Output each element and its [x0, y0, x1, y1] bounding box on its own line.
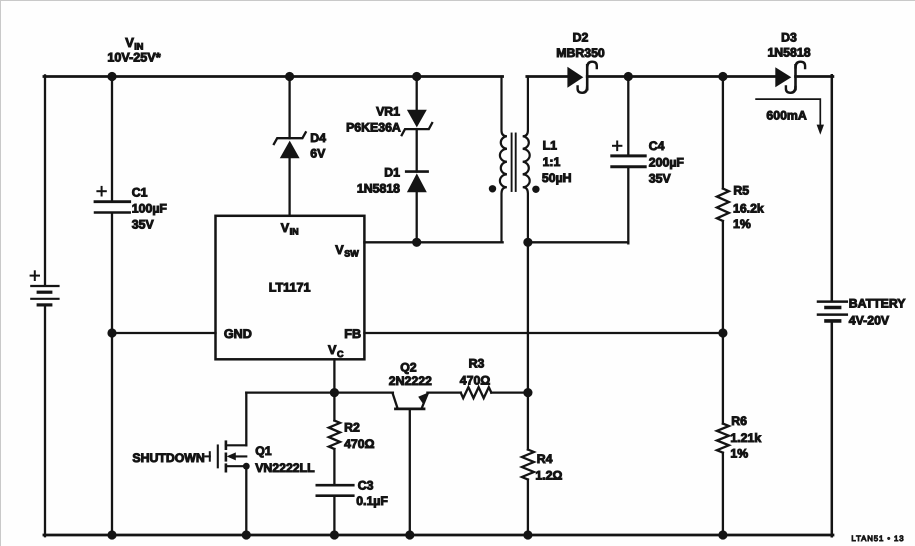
svg-text:16.2k: 16.2k	[733, 201, 764, 215]
svg-text:SW: SW	[344, 248, 359, 258]
svg-text:D4: D4	[310, 130, 326, 144]
label input battery + polarity	[30, 271, 38, 280]
svg-text:2N2222: 2N2222	[388, 374, 431, 388]
svg-text:Q1: Q1	[255, 444, 272, 458]
node C4 top junction dot	[623, 71, 632, 80]
wire GND pin to C1 branch	[112, 331, 216, 333]
svg-text:C3: C3	[357, 478, 373, 492]
svg-text:R2: R2	[344, 420, 360, 434]
wire C4 branch lower	[627, 168, 629, 243]
wire R2 to C3	[333, 449, 335, 484]
wire C3 lower	[333, 496, 335, 534]
node Q2 base ground junction dot	[405, 530, 414, 539]
node C1 ground bus junction dot	[107, 530, 116, 539]
svg-text:L1: L1	[542, 138, 557, 152]
svg-text:LT1171: LT1171	[268, 280, 310, 294]
svg-text:BATTERY: BATTERY	[848, 296, 905, 310]
wire right rail lower (battery - to ground bus)	[830, 322, 833, 536]
diode VR1 transient suppressor P6KE36A	[401, 109, 431, 134]
svg-text:470Ω: 470Ω	[459, 373, 490, 387]
node D4 top junction dot	[285, 71, 294, 80]
wire FB pin to divider junction	[364, 331, 723, 333]
node R3 sense junction dot	[523, 388, 532, 397]
svg-text:50µH: 50µH	[541, 171, 571, 185]
wire VR1 to D1	[415, 129, 417, 172]
svg-text:1%: 1%	[733, 217, 751, 231]
wire D1 to VSW line	[415, 191, 417, 242]
node FB divider junction dot	[718, 328, 727, 337]
resistor R4	[521, 449, 533, 479]
wire secondary return vertical	[526, 242, 528, 392]
svg-text:6V: 6V	[310, 146, 326, 160]
wire C1 branch upper	[110, 76, 112, 200]
svg-text:R5: R5	[733, 183, 749, 197]
svg-text:1.2Ω: 1.2Ω	[535, 468, 562, 482]
svg-text:P6KE36A: P6KE36A	[346, 120, 401, 134]
diode D4 zener 6V	[273, 132, 305, 158]
svg-text:10V-25V*: 10V-25V*	[107, 50, 160, 64]
capacitor C1	[95, 201, 130, 212]
resistor R5	[716, 188, 728, 221]
wire top bus VIN rail (left section)	[43, 75, 502, 78]
svg-text:C4: C4	[648, 139, 664, 153]
transformer L1 core	[511, 133, 515, 191]
svg-text:35V: 35V	[131, 217, 154, 231]
node Q1 source body junction dot	[242, 462, 249, 469]
wire Q2 emitter to R3	[427, 391, 460, 393]
svg-text:1N5818: 1N5818	[767, 45, 810, 59]
node Q1 source ground junction dot	[241, 530, 250, 539]
svg-text:SHUTDOWN: SHUTDOWN	[132, 451, 205, 465]
svg-text:GND: GND	[223, 326, 251, 340]
node VR1 top junction dot	[412, 71, 421, 80]
svg-text:V: V	[125, 34, 134, 49]
svg-text:D1: D1	[384, 165, 400, 179]
inductor L1 secondary winding	[522, 76, 529, 242]
node VC junction dot	[329, 388, 338, 397]
svg-text:V: V	[280, 221, 289, 235]
svg-text:35V: 35V	[648, 171, 671, 185]
wire C1 branch lower	[110, 213, 112, 332]
wire left rail upper (input +)	[43, 75, 45, 285]
svg-text:FB: FB	[344, 326, 361, 340]
resistor R2	[328, 420, 339, 449]
wire Q1 drain to Q2 collector	[246, 391, 393, 393]
wire shutdown input stub	[205, 452, 209, 461]
svg-text:0.1µF: 0.1µF	[356, 494, 388, 508]
svg-text:R6: R6	[731, 413, 747, 427]
svg-text:MBR350: MBR350	[556, 45, 605, 59]
svg-text:4V-20V: 4V-20V	[848, 313, 889, 327]
node C3 ground junction dot	[329, 530, 338, 539]
svg-text:R4: R4	[536, 452, 552, 466]
svg-text:C1: C1	[131, 185, 147, 199]
node L1 secondary phase dot	[532, 185, 539, 192]
svg-text:VR1: VR1	[376, 104, 400, 118]
resistor R3	[460, 387, 491, 398]
svg-text:200µF: 200µF	[648, 155, 684, 169]
battery input source symbol	[31, 286, 58, 305]
node R5 top junction dot	[718, 71, 727, 80]
node VR1 clamp VSW junction dot	[412, 237, 421, 246]
label C4 + polarity	[613, 141, 621, 150]
wire top bus D3 cathode to right corner	[795, 75, 832, 78]
wire secondary bottom to C4	[527, 241, 627, 243]
svg-text:1N5818: 1N5818	[356, 181, 399, 195]
wire top bus D2 cathode to D3 anode	[587, 75, 775, 78]
svg-text:1%: 1%	[730, 446, 748, 460]
node C1 GND junction dot	[107, 328, 116, 337]
wire Q1 drain riser	[245, 392, 247, 445]
svg-text:IN: IN	[289, 226, 298, 236]
wire R4 lower	[526, 479, 528, 535]
wire D4 to LT1171 VIN pin	[288, 157, 290, 215]
svg-text:V: V	[335, 242, 344, 256]
wire top bus output rail (transformer to D2)	[526, 75, 567, 78]
node L1 primary phase dot	[488, 185, 495, 192]
svg-text:VN2222LL: VN2222LL	[255, 460, 315, 474]
label C1 + polarity	[97, 186, 105, 195]
wire right rail upper (D3 to battery +)	[830, 75, 833, 300]
node R6 ground junction dot	[718, 530, 727, 539]
svg-text:Q2: Q2	[400, 360, 417, 374]
diode D3 1N5818	[775, 61, 805, 92]
capacitor C4	[611, 155, 644, 166]
diode D1 1N5818	[406, 171, 427, 192]
battery B1 output BATTERY symbol	[818, 301, 847, 320]
svg-text:100µF: 100µF	[131, 201, 167, 215]
label output current annotation 600mA arrow	[756, 99, 824, 135]
svg-text:1:1: 1:1	[542, 154, 560, 168]
resistor R6	[716, 423, 728, 452]
node VIN junction dot	[107, 71, 116, 80]
wire VC pin stem	[333, 359, 335, 392]
inductor L1 primary winding	[499, 76, 506, 242]
svg-text:D2: D2	[572, 30, 588, 44]
wire VSW pin to transformer primary	[364, 241, 502, 243]
svg-text:LTAN51 • 13: LTAN51 • 13	[851, 534, 904, 543]
transistor Q1 VN2222LL MOSFET	[217, 441, 246, 471]
node R4 ground junction dot	[523, 530, 532, 539]
wire R6 upper	[721, 333, 723, 424]
wire left rail lower (input -)	[43, 305, 45, 535]
wire R3 to sense junction	[491, 391, 528, 393]
wire D4 branch upper	[288, 76, 290, 138]
wire R5 lower	[721, 221, 723, 333]
wire VR1 branch upper	[415, 76, 417, 109]
svg-text:R3: R3	[468, 356, 484, 370]
node secondary return junction dot	[523, 237, 532, 246]
wire R4 upper	[526, 392, 528, 449]
wire bottom ground bus	[43, 533, 832, 536]
capacitor C3	[316, 485, 353, 496]
wire C1 to ground bus	[110, 333, 112, 535]
diode D2 MBR350	[567, 61, 596, 92]
wire C4 branch upper	[627, 76, 629, 154]
transistor Q2 2N2222	[392, 392, 429, 409]
svg-text:C: C	[337, 348, 344, 358]
svg-text:1.21k: 1.21k	[730, 431, 761, 445]
svg-text:600mA: 600mA	[766, 108, 806, 122]
wire Q2 base stem	[408, 408, 410, 534]
op-amp U1 LT1171 regulator box	[215, 215, 364, 358]
wire R2 upper	[333, 392, 335, 420]
svg-text:V: V	[328, 343, 337, 357]
wire R5 upper	[721, 76, 723, 188]
svg-text:470Ω: 470Ω	[344, 436, 375, 450]
wire R6 lower	[721, 452, 723, 534]
svg-text:D3: D3	[781, 30, 797, 44]
wire Q1 source to ground bus	[245, 466, 247, 535]
